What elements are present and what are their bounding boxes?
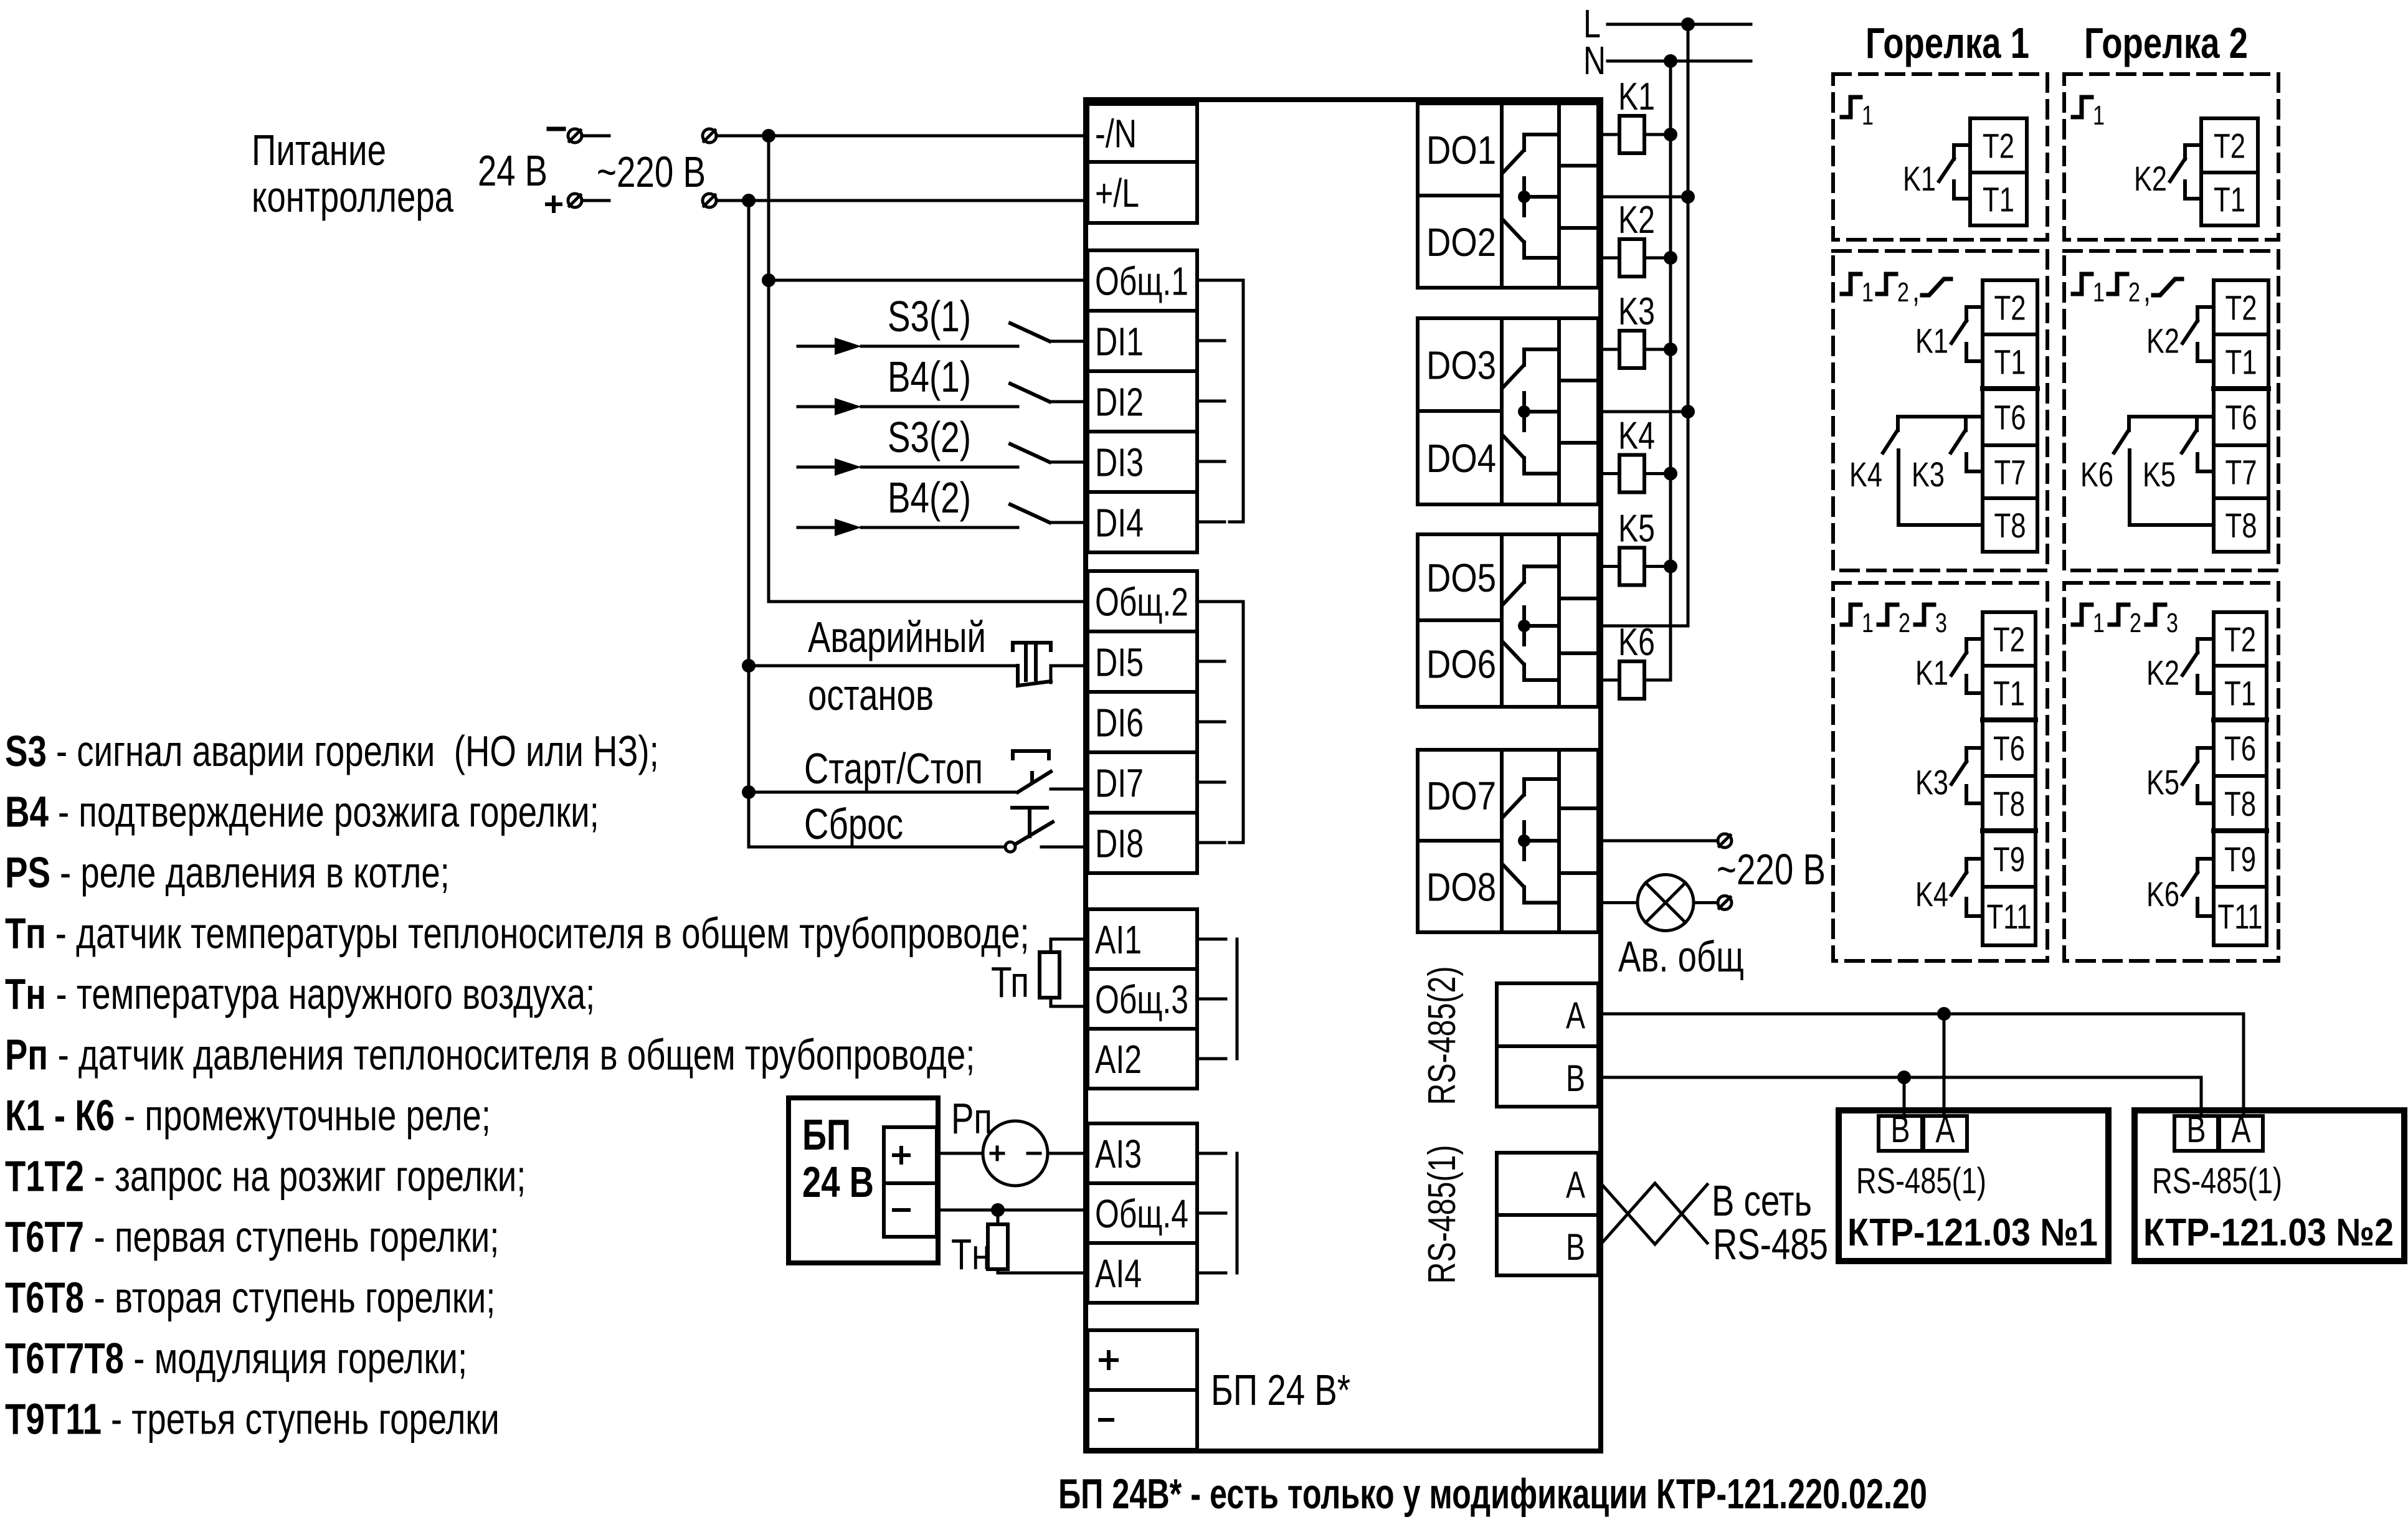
RS-485(2) terminal group [1497, 983, 1598, 1107]
svg-text:1: 1 [1862, 100, 1874, 131]
svg-text:K6: K6 [2080, 455, 2113, 494]
signal arrow S3(2) [798, 466, 837, 469]
internal stub DI input [1197, 721, 1225, 724]
svg-text:24 В: 24 В [802, 1158, 874, 1206]
start/stop switch (maintained) [1018, 772, 1051, 792]
DO group DO7/DO8 [1418, 750, 1598, 932]
junction coil K1 on N bus [1664, 128, 1677, 141]
wire emergency stop to DI5 [749, 664, 1018, 668]
svg-text:S3(1): S3(1) [888, 292, 971, 341]
junction coil K4 on N bus [1664, 467, 1677, 481]
wire DO8 to lamp [1601, 901, 1638, 904]
svg-text:DO1: DO1 [1426, 128, 1496, 173]
svg-text:B: B [1891, 1108, 1910, 1150]
svg-text:DO8: DO8 [1426, 865, 1496, 910]
relay contact K4 (to T8) [1896, 417, 1900, 430]
bus from +/L wire down to DI switches [749, 201, 1005, 847]
switch contact B4(2) [1010, 504, 1050, 522]
svg-text:T2: T2 [1993, 620, 2025, 659]
relay coil K1 [1619, 116, 1644, 153]
svg-text:DI1: DI1 [1095, 319, 1144, 364]
svg-text:Общ.1: Общ.1 [1095, 259, 1188, 304]
RS-485(1) terminal group [1497, 1153, 1598, 1275]
internal stub DI input [1197, 339, 1225, 343]
svg-text:T2: T2 [1983, 126, 2014, 166]
impulse symbol row1 [1842, 97, 1861, 117]
relay contact K5 [2197, 748, 2214, 762]
DO group DO5/DO6 [1418, 534, 1598, 707]
relay changeover contact DO5/DO6 [1524, 567, 1559, 582]
relay changeover contact DO1/DO2 [1524, 135, 1559, 150]
junction on +/L wire [742, 194, 756, 207]
wire AI1 to Тп sensor [1051, 939, 1088, 952]
svg-text:24 В: 24 В [478, 146, 547, 195]
svg-text:K1: K1 [1915, 653, 1948, 692]
svg-text:T1: T1 [1983, 180, 2014, 219]
internal stub DI input [1197, 400, 1225, 403]
svg-text:T11: T11 [1987, 897, 2032, 936]
wire S3(2) to switch [861, 466, 1018, 469]
impulse symbol row1 [2073, 97, 2092, 117]
svg-text:Питание: Питание [252, 126, 386, 174]
reset pushbutton (NO momentary) [1005, 842, 1015, 852]
junction bus to Общ.1 [762, 273, 775, 287]
relay contact K3 (to T7) [1964, 417, 1968, 430]
svg-text:A: A [1566, 1164, 1585, 1206]
svg-text:T2: T2 [2214, 126, 2245, 166]
svg-text:B: B [2187, 1108, 2206, 1150]
svg-text:K6: K6 [2146, 874, 2179, 914]
svg-text:DO6: DO6 [1426, 642, 1496, 687]
svg-text:Т6Т7: Т6Т7 [5, 1212, 84, 1261]
junction coil K2 on N bus [1664, 251, 1677, 265]
svg-text:Тн: Тн [951, 1230, 990, 1279]
impulse symbols row2 [1842, 274, 1861, 294]
terminal group Общ.1 DI1-DI4 [1088, 250, 1197, 552]
svg-text:K3: K3 [1912, 455, 1945, 494]
svg-text:B4(2): B4(2) [888, 473, 971, 522]
wire +/L from terminal to controller [717, 199, 1088, 202]
svg-text:Рп: Рп [5, 1031, 48, 1079]
svg-text:T7: T7 [1994, 453, 2026, 492]
bus from -/N wire down to Общ.1 and Общ.2 [769, 136, 1088, 602]
twisted pair RS-485(1) to network [1601, 1183, 1707, 1244]
svg-text:КТР-121.03 №1: КТР-121.03 №1 [1847, 1211, 2098, 1254]
relay contact K2 [2197, 639, 2214, 653]
junction A wire to KTP1 [1937, 1007, 1951, 1021]
svg-text:БП 24 В*: БП 24 В* [1211, 1366, 1350, 1414]
internal bus Общ.2 to DI8 [1197, 600, 1243, 603]
svg-text:1: 1 [2093, 100, 2105, 131]
signal arrow S3(1) [798, 345, 837, 348]
terminal group Общ.2 DI5-DI8 [1088, 571, 1197, 873]
signal arrow B4(2) [798, 526, 837, 529]
svg-text:- третья ступень горелки: - третья ступень горелки [102, 1395, 500, 1444]
resistor Тн (outdoor temperature sensor) [988, 1224, 1008, 1269]
internal stub DI input [1197, 781, 1225, 784]
wire to Общ.1 [769, 279, 1088, 282]
svg-text:N: N [1583, 38, 1606, 83]
svg-text:S3: S3 [5, 727, 47, 775]
wire N [1608, 60, 1751, 63]
internal stub DI input [1197, 841, 1225, 844]
svg-text:DI5: DI5 [1095, 640, 1144, 685]
svg-text:T8: T8 [1993, 784, 2025, 823]
junction B wire to KTP1 [1897, 1071, 1911, 1084]
svg-text:K5: K5 [2146, 763, 2179, 802]
switch contact B4(1) [1010, 384, 1050, 402]
svg-text:КТР-121.03 №2: КТР-121.03 №2 [2143, 1211, 2394, 1254]
svg-text:- датчик давления теплоносител: - датчик давления теплоносителя в общем … [48, 1031, 975, 1079]
svg-text:Аварийный: Аварийный [808, 613, 986, 661]
PSU terminal block + - [884, 1127, 937, 1237]
internal stub AI input [1197, 998, 1226, 1001]
terminal group + - (built-in PSU) [1088, 1330, 1197, 1450]
svg-text:-/N: -/N [1095, 111, 1137, 156]
svg-text:Тп: Тп [5, 909, 46, 958]
wire DO3/DO4 common to L bus [1601, 410, 1688, 414]
svg-text:Тп: Тп [991, 958, 1029, 1006]
svg-text:AI1: AI1 [1095, 917, 1142, 962]
wire down to Тн [997, 1210, 1000, 1224]
svg-text:2: 2 [1897, 277, 1909, 308]
svg-text:В4: В4 [5, 788, 49, 836]
impulse symbols row2 [2073, 274, 2092, 294]
internal stub AI input [1197, 1212, 1226, 1215]
svg-text:K5: K5 [1618, 508, 1655, 551]
wire coil K2 to N bus [1644, 257, 1671, 260]
wire PSU - to Общ.4 [937, 1209, 1088, 1212]
svg-text:2: 2 [2130, 608, 2141, 638]
internal stub AI input [1197, 1152, 1226, 1155]
svg-text:1: 1 [2093, 277, 2105, 308]
wire L [1608, 23, 1751, 26]
svg-text:- промежуточные реле;: - промежуточные реле; [115, 1091, 491, 1140]
wire PSU + to Рп sensor [937, 1152, 983, 1155]
relay coil K3 [1619, 331, 1644, 368]
svg-text:- датчик температуры теплоноси: - датчик температуры теплоносителя в общ… [46, 909, 1030, 958]
svg-text:B4(1): B4(1) [888, 352, 971, 401]
emergency stop button (NC maintained) [1018, 666, 1051, 686]
svg-text:Горелка 2: Горелка 2 [2084, 19, 2248, 67]
svg-text:DI2: DI2 [1095, 380, 1144, 425]
svg-text:БП: БП [802, 1110, 851, 1159]
wire lamp to terminal [1694, 901, 1717, 904]
polarity mark + (24V plus) [547, 202, 561, 206]
wire coil K6 to N bus [1644, 679, 1671, 682]
svg-text:DI6: DI6 [1095, 701, 1144, 745]
svg-text:B: B [1566, 1057, 1585, 1099]
wire coil K5 to N bus [1644, 565, 1671, 568]
svg-text:Ав. общ: Ав. общ [1618, 932, 1744, 981]
svg-text:- подтверждение розжига горелк: - подтверждение розжига горелки; [49, 788, 599, 836]
terminal A (КТР №2) [2219, 1116, 2263, 1151]
burner dashed box row3 [1833, 583, 2047, 961]
svg-text:T2: T2 [2226, 288, 2257, 328]
wire Тп to Общ.3 [1051, 998, 1088, 1006]
sensor Рп (pressure transmitter) [983, 1121, 1048, 1186]
module КТР-121.03 №2 box [2135, 1110, 2404, 1261]
junction L wire to L bus [1681, 17, 1695, 31]
burner row3 terminal box T2/T1/T6/T8/T9/T11 [1983, 612, 2036, 945]
svg-text:T8: T8 [2224, 784, 2256, 823]
internal stub AI input [1197, 1272, 1226, 1275]
svg-text:T8: T8 [2226, 506, 2257, 545]
wire stub from 24V plus terminal [583, 199, 609, 202]
switch contact S3(1) [1010, 323, 1050, 341]
terminal group AI1 Общ.3 AI2 [1088, 909, 1197, 1089]
relay contact K4 [1966, 859, 1983, 872]
svg-text:1: 1 [1862, 608, 1874, 638]
wire RS-485(2) B to KTP modules [1601, 1077, 2201, 1116]
svg-text:T6: T6 [1994, 398, 2026, 437]
burner dashed box row3 [2064, 583, 2278, 961]
svg-text:БП 24В* - есть только у модифи: БП 24В* - есть только у модификации КТР-… [1058, 1470, 1927, 1518]
relay contact K1 [1954, 145, 1970, 159]
svg-text:DO3: DO3 [1426, 343, 1496, 388]
junction on minus wire (Тн tap) [991, 1203, 1005, 1217]
svg-text:A: A [2232, 1108, 2251, 1150]
wire T6 to contacts K4/K3 [1898, 415, 1983, 418]
wire DO output to relay coil K1 [1601, 133, 1619, 136]
svg-text:RS-485: RS-485 [1713, 1220, 1828, 1269]
svg-text:DI4: DI4 [1095, 501, 1144, 546]
svg-text:DI3: DI3 [1095, 440, 1144, 485]
svg-text:Горелка 1: Горелка 1 [1865, 19, 2029, 67]
wire DO1/DO2 common to L bus [1601, 196, 1688, 199]
terminal B (КТР №1) [1879, 1116, 1922, 1151]
svg-text:K2: K2 [1618, 199, 1655, 242]
svg-text:K3: K3 [1915, 763, 1948, 802]
relay coil K6 [1619, 661, 1644, 699]
wire coil K4 to N bus [1644, 472, 1671, 475]
svg-text:~220 В: ~220 В [597, 148, 706, 196]
svg-text:RS-485(2): RS-485(2) [1421, 967, 1464, 1105]
terminal lamp return [1718, 896, 1732, 910]
svg-text:DI7: DI7 [1095, 761, 1144, 806]
svg-text:RS-485(1): RS-485(1) [2152, 1161, 2282, 1201]
burner dashed box row2 [1833, 251, 2047, 570]
svg-text:Общ.2: Общ.2 [1095, 580, 1188, 625]
svg-text:K4: K4 [1849, 455, 1882, 494]
svg-text:AI3: AI3 [1095, 1132, 1142, 1176]
svg-text:K5: K5 [2143, 455, 2176, 494]
svg-text:T7: T7 [2226, 453, 2257, 492]
svg-text:T9: T9 [2224, 839, 2256, 879]
svg-text:DO4: DO4 [1426, 436, 1496, 481]
terminal 24V minus [568, 129, 582, 143]
DO group DO3/DO4 [1418, 318, 1598, 504]
svg-text:PS: PS [5, 848, 50, 897]
junction bus to DI7 switch [742, 785, 756, 799]
lamp Ав. общ (general alarm) [1638, 875, 1694, 931]
svg-text:K2: K2 [2146, 653, 2179, 692]
svg-text:контроллера: контроллера [252, 173, 453, 221]
junction on -/N wire [762, 129, 775, 143]
relay contact K6 (to T8) [2127, 417, 2131, 430]
internal stub AI input [1197, 1057, 1226, 1061]
relay contact K1 [1966, 307, 1983, 321]
wire B4(2) to switch [861, 526, 1018, 529]
impulse symbols row3 [1842, 605, 1861, 625]
wire DO output to relay coil K4 [1601, 472, 1619, 475]
svg-text:- вторая ступень горелки;: - вторая ступень горелки; [84, 1274, 495, 1322]
svg-text:- запрос на розжиг горелки;: - запрос на розжиг горелки; [84, 1152, 526, 1201]
wire DO output to relay coil K3 [1601, 348, 1619, 351]
junction N wire to N bus [1664, 54, 1677, 68]
wire Рп to AI3 [1048, 1152, 1088, 1155]
relay contact K6 [2197, 859, 2214, 872]
terminal A (КТР №1) [1923, 1116, 1967, 1151]
power supply БП 24 В box [789, 1098, 938, 1263]
svg-text:Старт/Стоп: Старт/Стоп [804, 744, 983, 793]
svg-text:- сигнал аварии горелки (НО и: - сигнал аварии горелки (НО или НЗ); [47, 727, 659, 775]
svg-text:DO2: DO2 [1426, 220, 1496, 265]
svg-text:T2: T2 [1994, 288, 2026, 328]
controller main block outline [1086, 100, 1601, 1451]
relay contact K5 (to T7) [2195, 417, 2199, 430]
svg-text:~220 В: ~220 В [1717, 845, 1826, 894]
DO group DO1/DO2 [1418, 103, 1598, 288]
wire DO output to relay coil K5 [1601, 565, 1619, 568]
svg-text:T1: T1 [2214, 180, 2245, 219]
burner row2 terminal box T2/T1/T6/T7/T8 [2214, 280, 2268, 552]
svg-text:2: 2 [1898, 608, 1910, 638]
svg-text:3: 3 [1935, 608, 1947, 638]
svg-text:K3: K3 [1618, 290, 1655, 333]
svg-text:K4: K4 [1618, 415, 1655, 458]
svg-text:T1: T1 [1993, 674, 2025, 713]
svg-text:1: 1 [2093, 608, 2105, 638]
relay contact K2 [2197, 307, 2214, 321]
svg-text:,: , [1912, 270, 1920, 309]
svg-text:- модуляция горелки;: - модуляция горелки; [124, 1334, 467, 1383]
junction coil K5 on N bus [1664, 560, 1677, 574]
burner row3 terminal box T2/T1/T6/T8/T9/T11 [2214, 612, 2267, 945]
svg-text:Сброс: Сброс [804, 800, 903, 848]
wire S3(1) to switch [861, 345, 1018, 348]
svg-text:AI4: AI4 [1095, 1251, 1142, 1296]
svg-text:- первая ступень горелки;: - первая ступень горелки; [84, 1212, 499, 1261]
wire DO output to relay coil K6 [1601, 679, 1619, 682]
svg-text:Т1Т2: Т1Т2 [5, 1152, 84, 1201]
signal arrow B4(1) [798, 405, 837, 409]
svg-text:,: , [2143, 270, 2151, 309]
svg-text:K2: K2 [2134, 159, 2167, 198]
svg-text:T1: T1 [2224, 674, 2256, 713]
svg-text:- реле давления в котле;: - реле давления в котле; [50, 848, 450, 897]
PSU terminal + [894, 1153, 909, 1157]
PSU terminal - [894, 1208, 909, 1212]
svg-text:1: 1 [1862, 277, 1874, 308]
svg-text:DO7: DO7 [1426, 773, 1496, 818]
wire coil K1 to N bus [1644, 133, 1671, 136]
wire DO5/DO6 common to L bus [1601, 625, 1688, 628]
svg-text:T6: T6 [2224, 729, 2256, 768]
relay coil K4 [1619, 455, 1644, 493]
burner dashed box row2 [2064, 251, 2278, 570]
svg-text:К1 - К6: К1 - К6 [5, 1091, 115, 1140]
svg-text:DO5: DO5 [1426, 555, 1496, 600]
svg-text:T6: T6 [2226, 398, 2257, 437]
relay contact K1 [1966, 639, 1983, 653]
svg-text:T9: T9 [1993, 839, 2025, 879]
svg-text:T1: T1 [1994, 343, 2026, 382]
burner row1 terminal box T2/T1 [1970, 118, 2027, 225]
terminal label - [1100, 1418, 1112, 1422]
wire coil K3 to N bus [1644, 348, 1671, 351]
impulse symbols row3 [2073, 605, 2092, 625]
svg-text:останов: останов [808, 671, 934, 719]
terminal group AI3 Общ.4 AI4 [1088, 1123, 1197, 1303]
terminal 24V plus [568, 194, 582, 207]
svg-text:Рп: Рп [951, 1094, 992, 1143]
terminal ~220V line-2 [703, 194, 716, 207]
wire B4(1) to switch [861, 405, 1018, 409]
wire DO output to relay coil K2 [1601, 257, 1619, 260]
svg-text:S3(2): S3(2) [888, 413, 971, 461]
svg-text:Т9Т11: Т9Т11 [5, 1395, 102, 1444]
wire T6 to contacts K6/K5 [2129, 415, 2214, 418]
module КТР-121.03 №1 box [1839, 1110, 2108, 1261]
svg-text:Тн: Тн [5, 970, 46, 1018]
svg-text:K1: K1 [1903, 159, 1936, 198]
burner dashed box row1 [2064, 74, 2278, 240]
switch contact S3(2) [1010, 444, 1050, 462]
svg-text:T11: T11 [2218, 897, 2263, 936]
svg-text:T1: T1 [2226, 343, 2257, 382]
internal bus AI3-AI4 [1236, 1153, 1239, 1273]
relay contact K2 [2185, 145, 2201, 159]
svg-text:В сеть: В сеть [1712, 1176, 1812, 1225]
wire RS-485(2) A to KTP modules [1601, 1014, 2244, 1116]
svg-text:RS-485(1): RS-485(1) [1856, 1161, 1986, 1201]
svg-text:A: A [1936, 1108, 1955, 1150]
svg-text:DI8: DI8 [1095, 821, 1144, 866]
svg-text:T8: T8 [1994, 506, 2026, 545]
svg-text:+/L: +/L [1095, 171, 1139, 215]
internal bus Общ.1 to DI4 [1197, 279, 1243, 282]
svg-text:3: 3 [2166, 608, 2178, 638]
internal stub DI input [1197, 521, 1225, 524]
wire DO7/DO8 common to ~220V terminal [1601, 839, 1717, 843]
terminal group -/N +/L [1088, 104, 1197, 223]
svg-text:K4: K4 [1915, 874, 1948, 914]
terminal ~220V (lamp circuit) [1718, 834, 1732, 848]
svg-text:K1: K1 [1915, 321, 1948, 361]
wire -/N from terminal to controller [717, 135, 1088, 138]
terminal ~220V line-1 [703, 129, 716, 143]
internal stub AI input [1197, 938, 1226, 941]
relay contact K3 [1966, 748, 1983, 762]
svg-text:B: B [1566, 1226, 1585, 1268]
relay changeover contact DO7/DO8 [1524, 779, 1559, 795]
relay coil K5 [1619, 548, 1644, 585]
svg-text:T6: T6 [1993, 729, 2025, 768]
wire start/stop to DI7 [749, 791, 1018, 794]
wire stub from 24V minus terminal [583, 135, 609, 138]
svg-text:Т6Т8: Т6Т8 [5, 1274, 84, 1322]
svg-text:AI2: AI2 [1095, 1037, 1142, 1082]
svg-text:Общ.3: Общ.3 [1095, 977, 1188, 1022]
wire Тн to AI4 [998, 1269, 1088, 1273]
internal stub DI input [1197, 660, 1225, 663]
svg-text:2: 2 [2128, 277, 2140, 308]
svg-text:A: A [1566, 995, 1585, 1036]
relay coil K2 [1619, 239, 1644, 277]
svg-text:Общ.4: Общ.4 [1095, 1191, 1188, 1236]
internal stub DI input [1197, 460, 1225, 463]
